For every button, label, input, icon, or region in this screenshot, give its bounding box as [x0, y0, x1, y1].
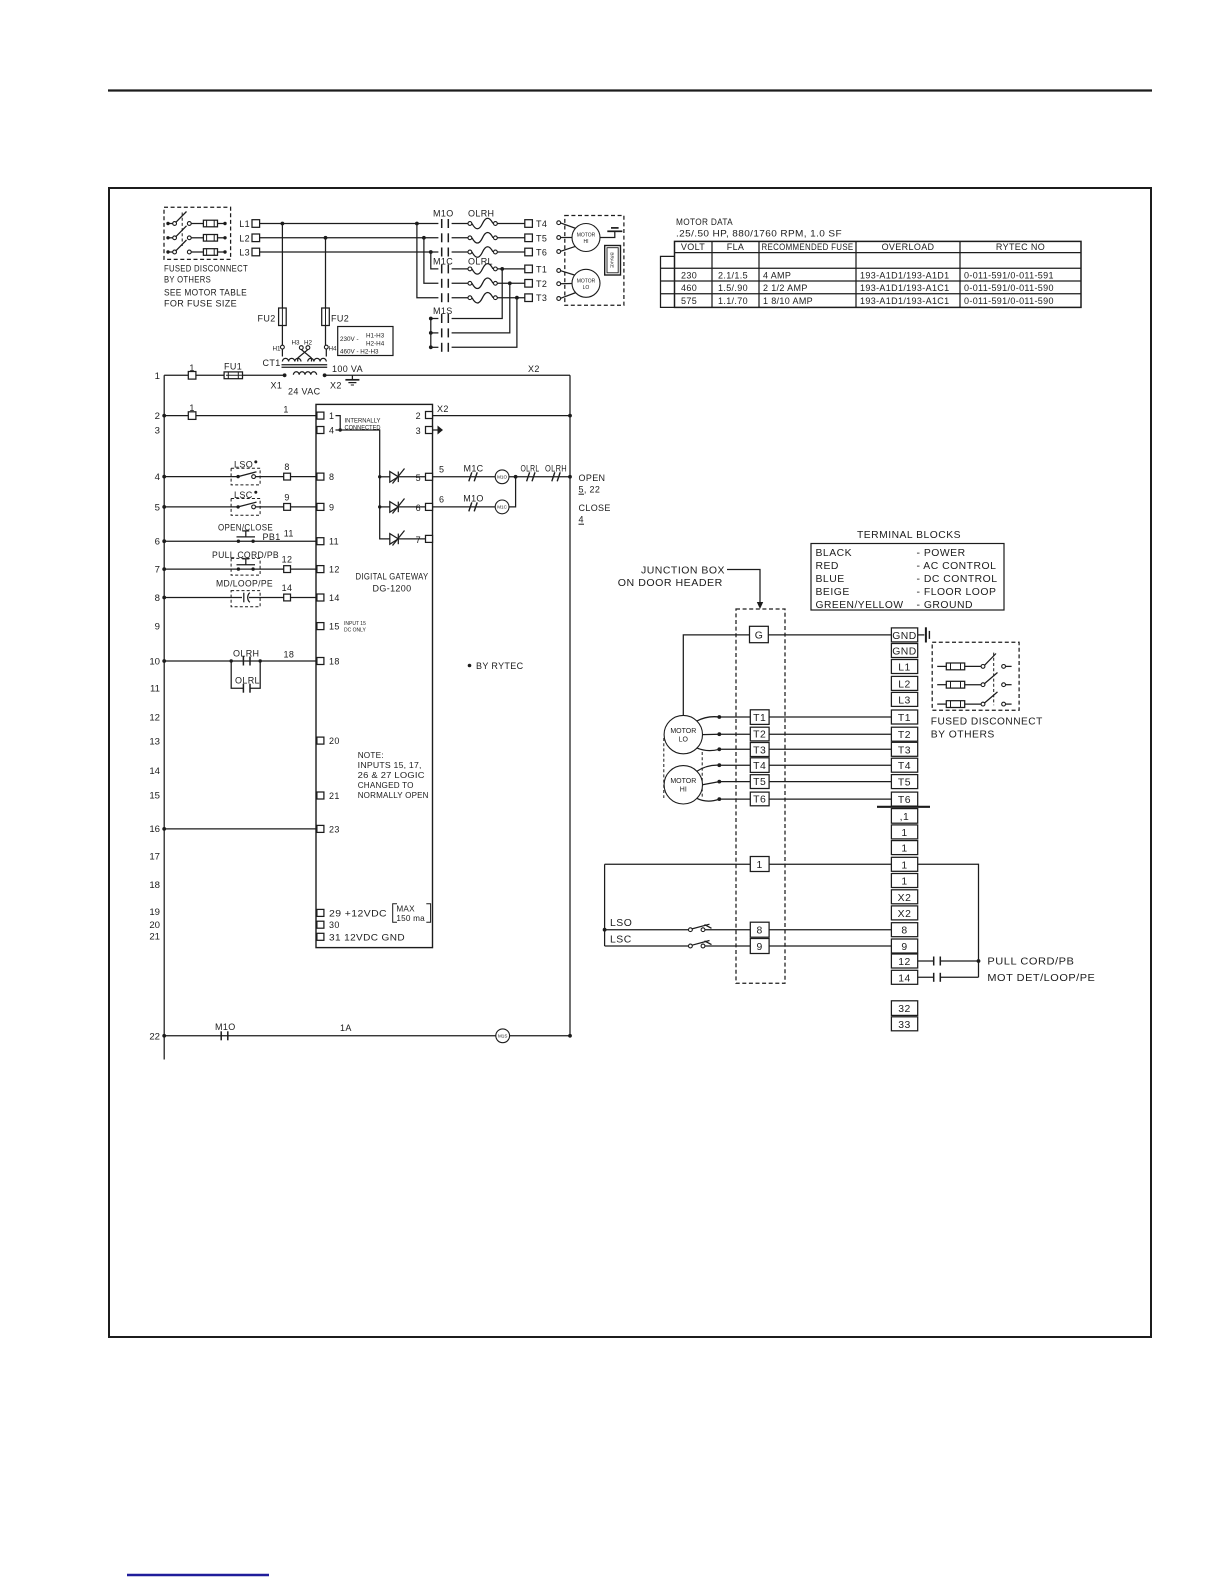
motor HI circle: [664, 766, 702, 804]
svg-text:ON DOOR HEADER: ON DOOR HEADER: [618, 578, 723, 589]
brake box: [605, 246, 621, 276]
note text: [358, 751, 429, 800]
rung 16 wire to DG terminal 23: [164, 828, 317, 830]
terminal block T5: [891, 775, 917, 789]
terminal L1: [239, 219, 259, 229]
svg-text:FU1: FU1: [224, 362, 242, 372]
svg-text:M1C: M1C: [463, 463, 483, 473]
motor LO lead T1: [557, 269, 576, 276]
motor LO lead T3: [557, 293, 576, 301]
right X2 rail: [568, 375, 572, 1037]
svg-text:FU2: FU2: [258, 314, 276, 324]
contactor M1O label: [433, 209, 494, 219]
svg-text:10: 10: [149, 657, 160, 668]
svg-text:GREEN/YELLOW: GREEN/YELLOW: [816, 600, 904, 611]
terminal block X2b: [891, 906, 917, 920]
DG terminal 9: [317, 502, 334, 512]
DG terminal 15: [317, 621, 367, 634]
svg-text:11: 11: [284, 529, 294, 539]
terminal block 9: [891, 939, 917, 953]
svg-text:T4: T4: [536, 219, 547, 229]
svg-text:31 12VDC GND: 31 12VDC GND: [329, 932, 405, 942]
svg-text:M1S: M1S: [498, 1034, 507, 1039]
svg-text:MOTOR: MOTOR: [670, 778, 696, 785]
svg-text:LSO: LSO: [610, 918, 632, 929]
contact M1O-T5 + overload: [442, 233, 525, 244]
wire L1 to FU2: [281, 224, 283, 309]
svg-text:PULL CORD/PB: PULL CORD/PB: [987, 957, 1074, 968]
internal feed to triacs: [340, 430, 390, 539]
DG terminal 11: [317, 537, 339, 547]
wire L1 drop to T3 row: [417, 224, 439, 298]
svg-text:LSC: LSC: [610, 934, 632, 945]
svg-text:DIGITAL GATEWAY: DIGITAL GATEWAY: [356, 572, 429, 582]
svg-text:OLRL: OLRL: [235, 675, 260, 685]
svg-text:NOTE:: NOTE:: [358, 751, 384, 760]
top rule line: [108, 89, 1152, 91]
svg-text:LO: LO: [679, 737, 689, 744]
motor data table: [661, 241, 1082, 307]
wire L3 drop to T1 row: [431, 252, 439, 269]
terminal block T1: [891, 710, 917, 724]
left feeder rail: [603, 864, 607, 946]
svg-text:5, 22: 5, 22: [579, 485, 601, 495]
svg-text:1 8/10 AMP: 1 8/10 AMP: [763, 296, 813, 306]
motor HI circle: [572, 224, 600, 252]
svg-text:X1: X1: [271, 381, 283, 391]
junction terminal 9: [750, 939, 891, 954]
limit switch LSO (field): [605, 918, 751, 932]
output rung 5: M1C contact, coil M1O, OLRL, OLRH: [433, 463, 571, 483]
contact M1C-T3 + overload: [442, 292, 525, 303]
voltage tap box: [338, 327, 393, 356]
terminal block 1d: [891, 874, 917, 888]
wire FU2 to H4: [325, 326, 327, 346]
svg-text:H1: H1: [272, 346, 281, 353]
terminal T2: [525, 279, 547, 289]
svg-text:T3: T3: [898, 745, 911, 756]
svg-text:460: 460: [681, 283, 697, 293]
svg-text:OLRH: OLRH: [545, 463, 567, 473]
svg-text:8: 8: [901, 926, 907, 937]
by rytec note: [468, 661, 524, 671]
rung 22: M1O aux contact, wire 1A, brake coil M1S: [164, 1022, 570, 1043]
svg-text:MOTOR DATA: MOTOR DATA: [676, 217, 733, 227]
svg-text:12: 12: [898, 957, 911, 968]
star contactor M1S common bus: [429, 317, 433, 350]
junction terminal T6: [750, 792, 891, 806]
svg-text:12: 12: [329, 565, 340, 575]
terminal block 32: [891, 1001, 917, 1016]
wire L3 phase: [260, 250, 439, 254]
svg-text:12: 12: [282, 555, 293, 565]
svg-text:H1-H3: H1-H3: [366, 333, 385, 340]
DG terminal 1: [317, 411, 334, 421]
svg-text:FLA: FLA: [727, 242, 745, 252]
svg-text:1: 1: [189, 363, 194, 373]
terminal T4: [525, 219, 547, 229]
svg-text:14: 14: [149, 766, 160, 777]
rung margin numbers: [149, 371, 160, 1042]
svg-text:L2: L2: [239, 233, 250, 243]
svg-text:BLACK: BLACK: [816, 548, 853, 559]
motion detector / loop / photoeye input: [164, 579, 317, 607]
svg-text:460V - H2-H3: 460V - H2-H3: [340, 349, 379, 356]
junction terminal T3: [750, 743, 891, 757]
svg-text:19: 19: [149, 907, 160, 918]
svg-text:NORMALLY OPEN: NORMALLY OPEN: [358, 791, 429, 800]
svg-text:CLOSE: CLOSE: [579, 503, 611, 513]
terminal block 1c: [891, 857, 917, 871]
svg-text:1A: 1A: [340, 1023, 352, 1033]
wire FU2 to H1: [281, 326, 283, 346]
svg-text:12: 12: [149, 712, 160, 723]
motor ground wire: [600, 232, 615, 238]
svg-text:H3: H3: [291, 340, 300, 347]
svg-text:TERMINAL BLOCKS: TERMINAL BLOCKS: [857, 530, 961, 541]
svg-text:X2: X2: [898, 893, 912, 904]
DG terminal 12: [317, 565, 340, 575]
junction box dashed outline: [736, 609, 785, 983]
motor HI lead T4: [557, 221, 576, 229]
terminal T5: [525, 233, 547, 243]
svg-text:,1: ,1: [900, 812, 910, 823]
svg-text:4 AMP: 4 AMP: [763, 270, 791, 280]
DG terminal 5: [416, 473, 433, 483]
rung 1 wire with FU1: [164, 362, 570, 380]
junction box label and pointer: [618, 566, 763, 610]
svg-text:M1O: M1O: [433, 209, 454, 219]
svg-text:5: 5: [439, 464, 444, 474]
svg-text:1: 1: [155, 371, 160, 382]
svg-text:H2-H4: H2-H4: [366, 341, 385, 348]
fuse FU2 right: [322, 308, 349, 326]
svg-text:RED: RED: [816, 561, 839, 572]
DG terminal 3: [416, 426, 433, 436]
terminal T1: [525, 264, 547, 274]
motor HI lead T5: [703, 780, 751, 785]
svg-text:M1C: M1C: [433, 257, 453, 267]
terminal blocks legend: [811, 530, 1004, 611]
separator bar: [877, 806, 930, 808]
svg-text:INPUTS 15, 17,: INPUTS 15, 17,: [358, 761, 422, 770]
svg-text:T6: T6: [898, 795, 911, 806]
svg-text:BLUE: BLUE: [816, 574, 845, 585]
svg-text:M1O: M1O: [215, 1022, 236, 1032]
svg-text:MOTOR: MOTOR: [577, 233, 596, 239]
svg-text:11: 11: [150, 684, 160, 695]
svg-text:15: 15: [329, 622, 340, 632]
svg-text:21: 21: [329, 791, 340, 801]
svg-text:X2: X2: [437, 404, 449, 414]
svg-text:1: 1: [901, 877, 907, 888]
rung 1 right drop: [918, 864, 981, 977]
svg-text:T1: T1: [753, 713, 766, 724]
internally connected bracket: [336, 416, 382, 432]
terminal T3: [525, 293, 547, 303]
svg-text:X2: X2: [330, 381, 342, 391]
contact M1C-T2 + overload: [442, 278, 525, 289]
svg-text:BY OTHERS: BY OTHERS: [164, 275, 211, 285]
terminal block L3: [891, 692, 917, 706]
svg-text:T1: T1: [536, 264, 547, 274]
svg-text:4: 4: [329, 426, 334, 436]
DG terminal 23: [317, 824, 340, 834]
svg-text:4: 4: [579, 515, 584, 525]
svg-text:16: 16: [149, 824, 160, 835]
svg-text:MD/LOOP/PE: MD/LOOP/PE: [216, 579, 273, 589]
DG terminal 29: [317, 908, 387, 918]
svg-text:FUSED DISCONNECT: FUSED DISCONNECT: [931, 716, 1043, 727]
terminal block J1: [891, 809, 917, 824]
svg-text:T2: T2: [536, 279, 547, 289]
svg-text:PB1: PB1: [263, 532, 281, 542]
svg-text:26 & 27 LOGIC: 26 & 27 LOGIC: [358, 771, 425, 780]
svg-text:1: 1: [901, 860, 907, 871]
svg-text:193-A1D1/193-A1C1: 193-A1D1/193-A1C1: [860, 296, 950, 306]
svg-text:T6: T6: [753, 795, 766, 806]
motor HI lead T5: [557, 236, 572, 240]
svg-text:L1: L1: [239, 219, 250, 229]
svg-text:1: 1: [901, 828, 907, 839]
svg-text:7: 7: [155, 565, 160, 576]
DG terminal 4: [317, 426, 334, 436]
wire rung 1 left: [605, 863, 892, 865]
DG terminal 18: [317, 657, 340, 667]
svg-text:OVERLOAD: OVERLOAD: [882, 242, 935, 252]
svg-text:HI: HI: [680, 787, 687, 794]
svg-text:MOTOR: MOTOR: [577, 278, 596, 284]
svg-text:OPEN: OPEN: [579, 473, 606, 483]
svg-text:HI: HI: [584, 239, 589, 245]
svg-text:13: 13: [149, 736, 160, 747]
terminal block T2: [891, 727, 917, 741]
terminal block L2: [891, 676, 917, 690]
svg-text:BEIGE: BEIGE: [816, 587, 850, 598]
svg-text:L2: L2: [898, 679, 911, 690]
motor HI lead T6: [697, 797, 751, 801]
contactor M1S label: [433, 306, 453, 316]
svg-text:.25/.50 HP, 880/1760 RPM, 1.0: .25/.50 HP, 880/1760 RPM, 1.0 SF: [676, 229, 842, 239]
terminal block L1: [891, 660, 917, 674]
svg-text:L3: L3: [239, 248, 250, 258]
pull cord pushbutton: [164, 550, 317, 575]
svg-text:GND: GND: [892, 647, 917, 658]
svg-text:5: 5: [416, 473, 421, 483]
svg-text:BY RYTEC: BY RYTEC: [476, 661, 524, 671]
svg-text:29 +12VDC: 29 +12VDC: [329, 908, 387, 918]
svg-text:X2: X2: [528, 364, 540, 374]
svg-text:T5: T5: [898, 778, 911, 789]
svg-text:T2: T2: [898, 730, 911, 741]
svg-text:JUNCTION BOX: JUNCTION BOX: [641, 566, 725, 577]
svg-text:18: 18: [284, 650, 295, 660]
terminal T6: [525, 248, 547, 258]
overload aux contacts OLRH/OLRL to input 18: [164, 649, 317, 693]
svg-text:2: 2: [155, 411, 160, 422]
svg-text:33: 33: [898, 1020, 911, 1031]
contactor M1C label: [433, 257, 493, 267]
svg-text:VOLT: VOLT: [681, 242, 705, 252]
fused disconnect (top-left, by others): [164, 207, 248, 308]
svg-text:DG-1200: DG-1200: [373, 584, 412, 594]
svg-text:8: 8: [757, 926, 763, 937]
svg-text:0-011-591/0-011-591: 0-011-591/0-011-591: [964, 270, 1054, 280]
svg-text:7: 7: [416, 535, 421, 545]
svg-text:M1O: M1O: [497, 475, 507, 480]
svg-text:6: 6: [155, 537, 160, 548]
svg-text:X2: X2: [898, 909, 912, 920]
terminal block GND: [891, 628, 917, 642]
motor data title: [676, 217, 842, 239]
output rung 6: M1O contact, coil M1C: [433, 477, 516, 514]
svg-text:SEE MOTOR TABLE: SEE MOTOR TABLE: [164, 288, 247, 298]
wire L1 phase: [260, 222, 439, 226]
terminal block 8: [891, 923, 917, 937]
svg-text:H4: H4: [329, 346, 338, 353]
svg-text:9: 9: [901, 942, 907, 953]
DG terminal 21: [317, 791, 340, 801]
svg-text:M1S: M1S: [433, 306, 453, 316]
junction terminal 8: [750, 922, 891, 937]
mot det contact at 14: [918, 973, 1096, 984]
contact M1O-T6 + overload: [442, 247, 525, 258]
svg-text:OLRL: OLRL: [521, 463, 540, 473]
svg-text:24 VAC: 24 VAC: [288, 387, 321, 397]
svg-text:9: 9: [155, 622, 160, 633]
wire L2 to FU2: [325, 238, 327, 308]
terminal L3: [239, 248, 259, 258]
svg-text:FU2: FU2: [331, 314, 349, 324]
drawing border frame: [109, 188, 1151, 1337]
svg-text:MOT DET/LOOP/PE: MOT DET/LOOP/PE: [987, 973, 1095, 984]
terminal block 1b: [891, 841, 917, 855]
motor LO lead T3: [697, 747, 751, 751]
triac output 6: [390, 499, 426, 514]
svg-text:1: 1: [189, 403, 194, 413]
svg-text:RYTEC NO: RYTEC NO: [996, 242, 1045, 252]
svg-text:2 1/2 AMP: 2 1/2 AMP: [763, 283, 808, 293]
svg-text:- AC CONTROL: - AC CONTROL: [917, 561, 997, 572]
svg-text:MAX: MAX: [396, 905, 415, 914]
svg-text:FOR FUSE SIZE: FOR FUSE SIZE: [164, 299, 237, 309]
svg-text:BY OTHERS: BY OTHERS: [931, 730, 995, 741]
svg-text:INTERNALLY: INTERNALLY: [345, 417, 382, 424]
terminal block GND 2: [891, 644, 917, 658]
terminal block 33: [891, 1017, 917, 1031]
svg-text:1: 1: [329, 411, 334, 421]
svg-text:6: 6: [416, 503, 421, 513]
terminal block T3: [891, 742, 917, 756]
terminal block 12: [891, 954, 917, 968]
svg-text:6: 6: [439, 494, 444, 504]
motor LO circle: [572, 269, 600, 297]
svg-text:8: 8: [284, 462, 289, 472]
limit switch LSC: [164, 490, 317, 515]
svg-text:RECOMMENDED FUSE: RECOMMENDED FUSE: [762, 242, 854, 252]
motor HI lead T4: [697, 763, 751, 771]
svg-text:230: 230: [681, 270, 697, 280]
svg-text:BRAKE: BRAKE: [609, 252, 614, 268]
DG terminal 2: [416, 411, 433, 421]
triac output 7: [390, 531, 426, 546]
rung 2 X2 wire from terminal 2: [433, 404, 571, 416]
svg-text:9: 9: [284, 492, 289, 502]
svg-text:- FLOOR LOOP: - FLOOR LOOP: [917, 587, 997, 598]
svg-text:193-A1D1/193-A1D1: 193-A1D1/193-A1D1: [860, 270, 950, 280]
svg-text:T2: T2: [753, 730, 766, 741]
wire G to GND terminal: [768, 634, 891, 636]
rung 2 wire to DG terminal 1: [164, 403, 317, 419]
svg-text:23: 23: [329, 824, 340, 834]
terminal block T4: [891, 758, 917, 772]
terminal block 1a: [891, 825, 917, 839]
DG terminal 20: [317, 736, 340, 746]
terminal block T6: [891, 792, 917, 806]
svg-text:- POWER: - POWER: [917, 548, 966, 559]
fuse FU2 left: [258, 308, 287, 326]
terminal block X2a: [891, 890, 917, 904]
svg-text:2: 2: [416, 411, 421, 421]
ground symbol: [607, 228, 622, 231]
motor dashed outline (lower): [664, 738, 702, 798]
svg-text:14: 14: [282, 583, 293, 593]
svg-text:OLRH: OLRH: [468, 209, 494, 219]
svg-text:8: 8: [329, 472, 334, 482]
svg-text:9: 9: [329, 502, 334, 512]
svg-text:DC ONLY: DC ONLY: [344, 628, 367, 634]
contact M1S-3: [431, 298, 517, 352]
pushbutton PB1 open/close: [164, 523, 317, 543]
svg-text:M1C: M1C: [497, 505, 507, 510]
svg-text:15: 15: [149, 791, 160, 802]
motor LO lead T1: [697, 715, 751, 721]
svg-text:CHANGED TO: CHANGED TO: [358, 781, 414, 790]
svg-text:T6: T6: [536, 248, 547, 258]
limit switch LSC (field): [605, 934, 751, 948]
digital gateway DG-1200 box: [316, 404, 433, 947]
svg-text:8: 8: [155, 593, 160, 604]
svg-text:G: G: [755, 630, 764, 641]
junction terminal T4: [750, 758, 891, 773]
svg-text:14: 14: [898, 973, 911, 984]
motor LO lead T2: [557, 282, 572, 286]
svg-text:5: 5: [155, 502, 160, 513]
svg-text:1: 1: [901, 844, 907, 855]
svg-text:20: 20: [149, 920, 160, 931]
svg-text:18: 18: [149, 880, 160, 891]
chassis ground at GND: [918, 627, 930, 642]
svg-text:9: 9: [757, 942, 763, 953]
open/close references: [579, 473, 611, 525]
svg-text:1: 1: [283, 405, 288, 415]
motor HI lead T6: [557, 246, 576, 253]
DG terminal 6: [416, 503, 433, 513]
svg-text:T4: T4: [753, 761, 766, 772]
svg-text:100 VA: 100 VA: [332, 364, 363, 374]
wire L2 phase: [260, 236, 439, 240]
junction terminal T5: [750, 775, 891, 789]
svg-text:T5: T5: [536, 233, 547, 243]
svg-text:OLRL: OLRL: [468, 257, 493, 267]
junction terminal T1: [750, 710, 891, 725]
svg-text:T5: T5: [753, 777, 766, 788]
DG terminal 7: [416, 535, 433, 545]
motor LO lead T2: [703, 732, 751, 736]
ground symbol on X2: [345, 375, 359, 385]
svg-text:LO: LO: [583, 285, 590, 291]
svg-text:T3: T3: [753, 745, 766, 756]
